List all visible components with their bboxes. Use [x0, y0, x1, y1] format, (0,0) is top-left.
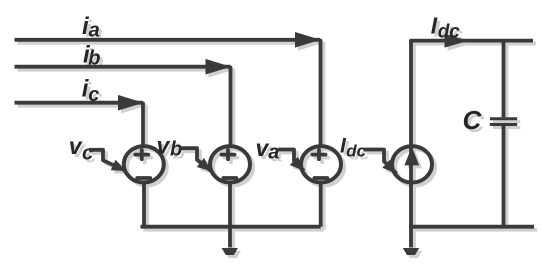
V2 plus sign: [222, 150, 235, 159]
svg-text:I: I: [431, 12, 438, 38]
capacitor C top plate: [490, 117, 517, 120]
wire i_b corner vertical: [229, 68, 233, 145]
wire i_c corner vertical: [141, 104, 145, 145]
control arrow v_c: [89, 150, 126, 171]
wire V1 bottom stem: [142, 184, 146, 227]
ground G1: [222, 248, 238, 255]
arrowhead I_dc top: [445, 34, 469, 48]
wire i_a corner vertical: [319, 41, 323, 145]
control arrow v_b: [180, 148, 212, 171]
capacitor C bottom plate: [490, 123, 517, 126]
V1 minus sign: [137, 176, 150, 180]
control arrow I_dc: [364, 150, 397, 174]
wire i_c horizontal: [15, 101, 144, 105]
wire i_b horizontal: [15, 65, 231, 69]
svg-text:dc: dc: [346, 141, 366, 160]
svg-text:v: v: [157, 133, 171, 159]
svg-text:C: C: [463, 105, 483, 135]
wire i_a horizontal: [15, 38, 321, 42]
V2 minus sign: [223, 176, 236, 180]
svg-text:b: b: [88, 47, 100, 69]
voltage source V1 (v_c) circle: [124, 146, 164, 182]
control arrow v_a: [278, 150, 304, 171]
svg-text:a: a: [268, 142, 279, 164]
svg-text:a: a: [89, 20, 100, 42]
wire V3 bottom stem: [319, 184, 323, 227]
svg-text:c: c: [82, 142, 93, 164]
voltage source V3 (v_a) circle: [301, 146, 341, 182]
ground G2: [403, 248, 419, 255]
svg-text:c: c: [88, 84, 99, 106]
V3 minus sign: [314, 176, 327, 180]
current source I1 vertical wire: [409, 41, 413, 248]
current source I1 arrow: [404, 147, 419, 166]
V3 plus sign: [313, 150, 326, 159]
capacitor C top lead: [502, 41, 506, 118]
capacitor C bottom lead: [502, 126, 506, 227]
current source I1 circle: [392, 146, 432, 182]
wire V2 bottom stem to ground: [228, 184, 232, 248]
top right wire with corner: [411, 41, 533, 42]
bottom bus right: [409, 225, 534, 229]
bottom bus left: [141, 225, 321, 229]
svg-text:dc: dc: [438, 22, 461, 43]
voltage source V2 (v_b) circle: [210, 146, 250, 182]
V1 plus sign: [135, 150, 148, 159]
svg-text:v: v: [69, 133, 83, 159]
